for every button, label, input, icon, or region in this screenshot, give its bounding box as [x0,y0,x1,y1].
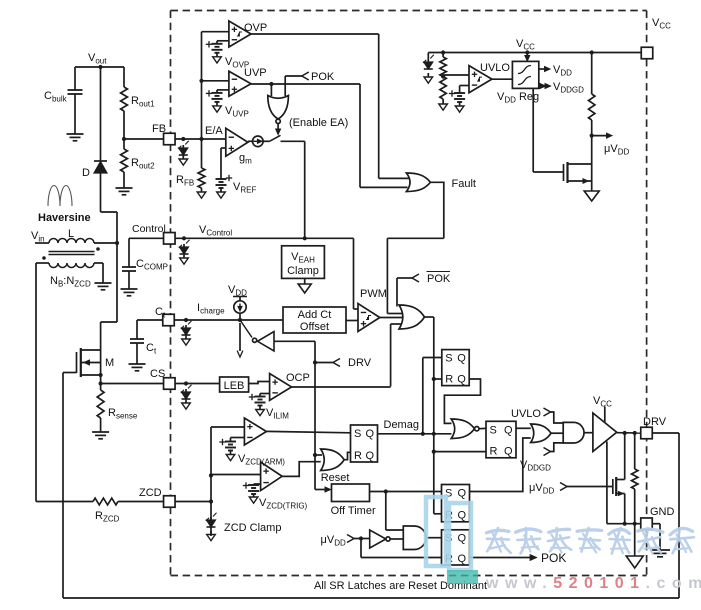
svg-text:S: S [490,424,497,436]
svg-text:R: R [445,374,453,386]
svg-text:Q: Q [366,450,375,462]
svg-text:Q: Q [458,488,467,500]
svg-text:Reset: Reset [321,472,350,484]
svg-text:Clamp: Clamp [287,265,319,277]
svg-text:R: R [354,450,362,462]
svg-text:Off Timer: Off Timer [331,505,376,517]
svg-text:Q: Q [504,424,513,436]
svg-text:Q: Q [458,510,467,522]
svg-text:Q: Q [457,374,466,386]
svg-text:Demag: Demag [384,419,419,431]
svg-text:POK: POK [427,273,451,285]
svg-text:POK: POK [311,71,335,83]
svg-text:D: D [82,167,90,179]
svg-text:Q: Q [504,446,513,458]
svg-text:FB: FB [152,123,166,135]
svg-text:Q: Q [458,533,467,545]
svg-text:Add Ct: Add Ct [298,309,332,321]
svg-text:UVP: UVP [244,67,267,79]
svg-text:Q: Q [366,428,375,440]
svg-text:DRV: DRV [348,357,372,369]
svg-text:PWM: PWM [360,288,387,300]
svg-text:www.520101.com: www.520101.com [485,575,701,592]
svg-text:UVLO: UVLO [511,408,541,420]
svg-text:GND: GND [650,506,675,518]
svg-text:Offset: Offset [300,321,329,333]
svg-text:POK: POK [541,551,566,565]
svg-text:(Enable EA): (Enable EA) [289,117,348,129]
svg-text:OVP: OVP [244,22,267,34]
svg-text:Haversine: Haversine [38,212,91,224]
svg-text:Fault: Fault [452,178,476,190]
svg-text:R: R [490,446,498,458]
svg-text:Control: Control [132,223,166,235]
svg-text:Q: Q [458,553,467,565]
svg-text:S: S [354,428,361,440]
svg-text:ZCD Clamp: ZCD Clamp [224,522,281,534]
svg-text:DRV: DRV [643,416,667,428]
svg-text:OCP: OCP [286,372,310,384]
svg-text:S: S [445,353,452,365]
svg-text:ZCD: ZCD [139,487,162,499]
svg-text:M: M [105,357,114,369]
svg-text:E/A: E/A [205,125,223,137]
svg-text:Q: Q [457,353,466,365]
svg-text:UVLO: UVLO [480,62,510,74]
svg-text:CS: CS [150,368,165,380]
svg-text:LEB: LEB [224,380,245,392]
